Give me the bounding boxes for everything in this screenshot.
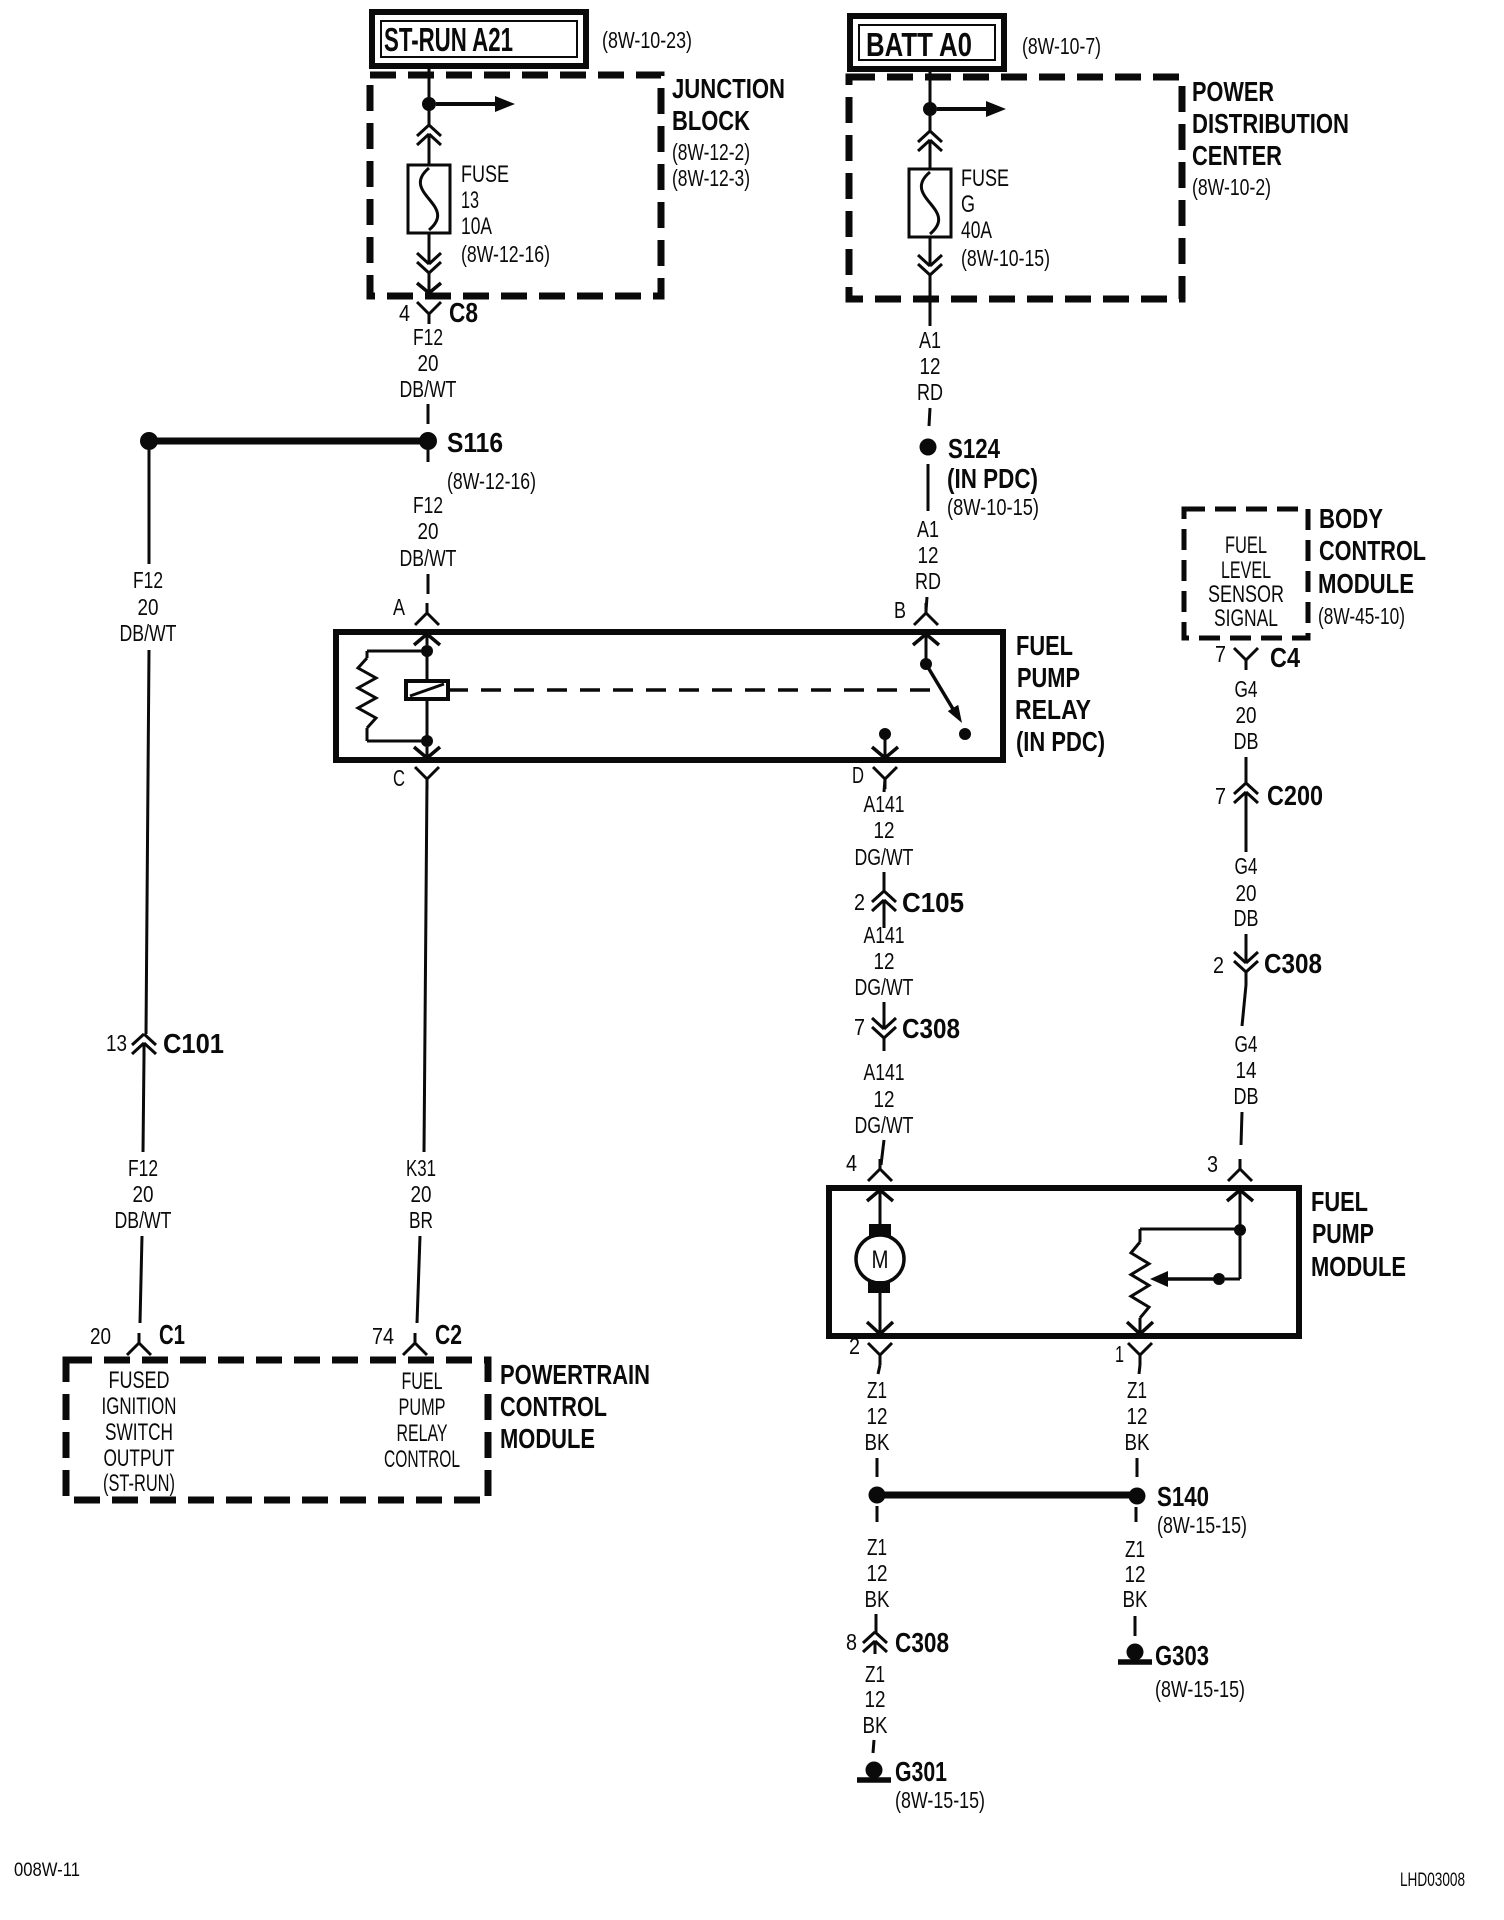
svg-text:10A: 10A — [461, 213, 492, 240]
svg-text:FUEL: FUEL — [402, 1368, 443, 1395]
svg-text:C105: C105 — [902, 887, 964, 918]
svg-text:DB/WT: DB/WT — [115, 1207, 172, 1233]
svg-text:A141: A141 — [864, 1059, 905, 1085]
svg-text:2: 2 — [854, 889, 865, 915]
svg-text:1: 1 — [1115, 1341, 1124, 1367]
svg-text:12: 12 — [1127, 1403, 1148, 1429]
svg-text:SENSOR: SENSOR — [1208, 581, 1284, 608]
svg-text:G4: G4 — [1235, 1031, 1258, 1057]
svg-text:FUSED: FUSED — [109, 1367, 170, 1394]
svg-text:DG/WT: DG/WT — [855, 1112, 914, 1138]
svg-text:20: 20 — [138, 594, 159, 620]
svg-text:74: 74 — [372, 1323, 394, 1349]
svg-text:13: 13 — [106, 1030, 127, 1056]
svg-text:CONTROL: CONTROL — [500, 1391, 607, 1422]
svg-text:20: 20 — [411, 1181, 432, 1207]
svg-text:C308: C308 — [1264, 948, 1322, 979]
svg-text:12: 12 — [918, 542, 939, 568]
svg-text:12: 12 — [865, 1686, 886, 1712]
svg-text:DISTRIBUTION: DISTRIBUTION — [1192, 108, 1349, 139]
svg-text:RD: RD — [915, 568, 941, 594]
svg-text:BK: BK — [1123, 1586, 1149, 1612]
svg-text:(8W-10-15): (8W-10-15) — [947, 494, 1039, 520]
svg-text:LEVEL: LEVEL — [1221, 557, 1271, 584]
svg-text:BATT A0: BATT A0 — [866, 26, 972, 63]
svg-text:POWER: POWER — [1192, 76, 1274, 107]
svg-text:20: 20 — [133, 1181, 154, 1207]
svg-text:12: 12 — [874, 1086, 895, 1112]
svg-text:(8W-15-15): (8W-15-15) — [1157, 1512, 1247, 1538]
svg-text:DG/WT: DG/WT — [855, 844, 914, 870]
svg-text:PUMP: PUMP — [399, 1394, 446, 1421]
svg-text:Z1: Z1 — [865, 1661, 885, 1687]
svg-text:7: 7 — [1215, 641, 1226, 667]
svg-text:OUTPUT: OUTPUT — [104, 1445, 175, 1472]
svg-text:BODY: BODY — [1319, 503, 1383, 534]
svg-text:20: 20 — [1236, 702, 1257, 728]
svg-text:MODULE: MODULE — [1318, 568, 1414, 599]
svg-text:DB: DB — [1234, 905, 1259, 931]
svg-text:IGNITION: IGNITION — [102, 1393, 177, 1420]
svg-text:F12: F12 — [413, 492, 443, 518]
svg-text:Z1: Z1 — [867, 1534, 887, 1560]
svg-text:(IN PDC): (IN PDC) — [1016, 726, 1105, 757]
svg-text:G: G — [961, 191, 975, 218]
svg-text:Z1: Z1 — [1127, 1377, 1147, 1403]
svg-text:12: 12 — [874, 948, 895, 974]
svg-text:(8W-10-15): (8W-10-15) — [961, 245, 1050, 271]
svg-text:K31: K31 — [406, 1155, 436, 1181]
svg-text:C200: C200 — [1267, 780, 1323, 811]
svg-text:DB: DB — [1234, 728, 1259, 754]
svg-text:FUSE: FUSE — [961, 165, 1009, 192]
svg-text:Z1: Z1 — [867, 1377, 887, 1403]
svg-text:F12: F12 — [128, 1155, 158, 1181]
svg-text:C308: C308 — [895, 1627, 949, 1658]
svg-text:BLOCK: BLOCK — [672, 105, 750, 136]
svg-text:(8W-12-16): (8W-12-16) — [461, 241, 550, 267]
svg-text:2: 2 — [849, 1333, 860, 1359]
svg-text:CENTER: CENTER — [1192, 140, 1282, 171]
svg-text:MODULE: MODULE — [1311, 1251, 1406, 1282]
svg-text:C308: C308 — [902, 1013, 960, 1044]
svg-text:CONTROL: CONTROL — [384, 1446, 460, 1473]
svg-text:DB: DB — [1234, 1083, 1259, 1109]
svg-text:A141: A141 — [864, 922, 905, 948]
svg-text:12: 12 — [867, 1403, 888, 1429]
svg-text:PUMP: PUMP — [1017, 662, 1080, 693]
svg-text:(8W-15-15): (8W-15-15) — [1155, 1676, 1245, 1702]
svg-text:SIGNAL: SIGNAL — [1214, 605, 1278, 632]
svg-text:8: 8 — [846, 1629, 857, 1655]
svg-text:20: 20 — [418, 350, 439, 376]
svg-text:RELAY: RELAY — [397, 1420, 448, 1447]
svg-text:S140: S140 — [1157, 1481, 1209, 1512]
svg-text:S116: S116 — [447, 427, 503, 458]
svg-text:4: 4 — [846, 1150, 857, 1176]
svg-text:SWITCH: SWITCH — [105, 1419, 173, 1446]
svg-text:13: 13 — [461, 187, 479, 214]
svg-text:008W-11: 008W-11 — [14, 1860, 80, 1881]
svg-text:M: M — [872, 1246, 889, 1274]
svg-text:PUMP: PUMP — [1312, 1218, 1374, 1249]
svg-text:F12: F12 — [413, 324, 443, 350]
svg-text:(8W-45-10): (8W-45-10) — [1318, 603, 1405, 629]
svg-text:C: C — [393, 765, 405, 791]
svg-text:7: 7 — [854, 1014, 865, 1040]
svg-text:POWERTRAIN: POWERTRAIN — [500, 1359, 650, 1390]
svg-text:(8W-12-3): (8W-12-3) — [672, 165, 750, 191]
svg-text:(IN PDC): (IN PDC) — [947, 463, 1038, 494]
svg-text:A1: A1 — [919, 327, 941, 353]
svg-text:FUEL: FUEL — [1225, 532, 1267, 559]
svg-text:A1: A1 — [917, 516, 939, 542]
svg-text:LHD03008: LHD03008 — [1400, 1870, 1465, 1891]
svg-text:(ST-RUN): (ST-RUN) — [103, 1470, 175, 1497]
svg-text:B: B — [894, 597, 906, 623]
svg-text:FUEL: FUEL — [1016, 630, 1073, 661]
svg-text:2: 2 — [1213, 952, 1224, 978]
svg-text:(8W-10-7): (8W-10-7) — [1022, 33, 1101, 59]
svg-text:20: 20 — [90, 1323, 111, 1349]
svg-text:(8W-10-23): (8W-10-23) — [602, 27, 692, 53]
svg-text:4: 4 — [399, 300, 410, 326]
svg-text:40A: 40A — [961, 217, 992, 244]
svg-text:12: 12 — [1125, 1561, 1146, 1587]
svg-text:S124: S124 — [948, 433, 1000, 464]
svg-text:C4: C4 — [1270, 642, 1300, 673]
svg-text:12: 12 — [920, 353, 941, 379]
svg-text:14: 14 — [1236, 1057, 1257, 1083]
svg-text:BK: BK — [1125, 1429, 1151, 1455]
svg-text:BK: BK — [863, 1712, 889, 1738]
svg-text:Z1: Z1 — [1125, 1536, 1145, 1562]
svg-text:A: A — [393, 594, 406, 620]
svg-text:7: 7 — [1215, 783, 1226, 809]
svg-text:G4: G4 — [1235, 676, 1258, 702]
svg-text:BK: BK — [865, 1586, 891, 1612]
svg-text:G303: G303 — [1155, 1640, 1209, 1671]
svg-text:(8W-10-2): (8W-10-2) — [1192, 174, 1271, 200]
svg-text:A141: A141 — [864, 791, 905, 817]
svg-text:ST-RUN A21: ST-RUN A21 — [384, 21, 513, 58]
svg-text:F12: F12 — [133, 567, 163, 593]
svg-text:FUSE: FUSE — [461, 161, 509, 188]
svg-text:3: 3 — [1207, 1151, 1218, 1177]
svg-text:12: 12 — [874, 817, 895, 843]
svg-text:FUEL: FUEL — [1311, 1186, 1368, 1217]
svg-text:C101: C101 — [163, 1028, 224, 1059]
svg-text:DB/WT: DB/WT — [120, 620, 177, 646]
svg-text:(8W-12-16): (8W-12-16) — [447, 468, 536, 494]
svg-text:12: 12 — [867, 1560, 888, 1586]
svg-text:C8: C8 — [449, 297, 478, 328]
svg-text:20: 20 — [418, 518, 439, 544]
svg-text:DG/WT: DG/WT — [855, 974, 914, 1000]
svg-text:RELAY: RELAY — [1015, 694, 1091, 725]
svg-text:JUNCTION: JUNCTION — [672, 73, 785, 104]
svg-text:BR: BR — [409, 1207, 433, 1233]
svg-text:DB/WT: DB/WT — [400, 545, 457, 571]
svg-text:D: D — [852, 762, 864, 788]
svg-text:CONTROL: CONTROL — [1319, 535, 1426, 566]
svg-text:MODULE: MODULE — [500, 1423, 595, 1454]
svg-text:G301: G301 — [895, 1756, 947, 1787]
svg-text:RD: RD — [917, 379, 943, 405]
svg-text:(8W-12-2): (8W-12-2) — [672, 139, 750, 165]
svg-text:DB/WT: DB/WT — [400, 376, 457, 402]
svg-text:BK: BK — [865, 1429, 891, 1455]
svg-text:C2: C2 — [435, 1319, 462, 1350]
svg-text:(8W-15-15): (8W-15-15) — [895, 1787, 985, 1813]
svg-text:C1: C1 — [159, 1319, 185, 1350]
svg-text:G4: G4 — [1235, 853, 1258, 879]
svg-text:20: 20 — [1236, 880, 1257, 906]
